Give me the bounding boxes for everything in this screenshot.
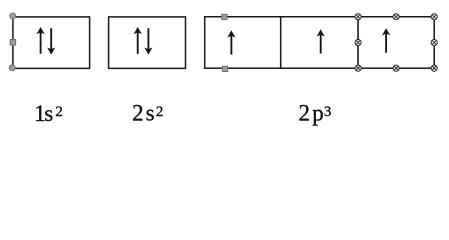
up arrow in 1s box [38, 28, 44, 54]
label 2p3 [299, 101, 332, 126]
orbital box 1s [13, 17, 90, 69]
svg-text:s: s [44, 101, 53, 126]
selection handle square left-mid of 1s [10, 40, 16, 46]
orbital box 2p a [205, 17, 281, 68]
svg-text:2: 2 [132, 101, 144, 126]
up arrow in 2s box [135, 28, 141, 54]
label 2s2 [132, 101, 163, 126]
svg-text:s: s [146, 101, 155, 126]
up arrow in 2p box b [318, 30, 324, 53]
x marks inside crossed circle handles [356, 15, 436, 70]
svg-text:2: 2 [55, 104, 63, 120]
up arrow in 2p box c [383, 29, 389, 53]
down arrow in 2s box [145, 28, 151, 54]
orbital box 2s [109, 17, 186, 69]
selection handle circle top-left of 1s [10, 13, 16, 19]
svg-text:p: p [312, 101, 324, 126]
label 1s2 [34, 101, 63, 126]
svg-text:2: 2 [299, 101, 311, 126]
orbital box 2p b [281, 17, 358, 68]
svg-text:3: 3 [324, 104, 332, 120]
selection handle circle bottom-left of 1s [9, 65, 15, 71]
down arrow in 1s box [48, 28, 54, 54]
crossed circle handles around 2p c [355, 14, 437, 72]
endpoint handle square on bottom edge of 2p a [222, 66, 227, 71]
svg-text:2: 2 [156, 104, 164, 120]
orbital box 2p c [358, 17, 434, 68]
up arrow in 2p box a [228, 31, 234, 54]
endpoint handle square on top edge of 2p a [222, 14, 227, 19]
